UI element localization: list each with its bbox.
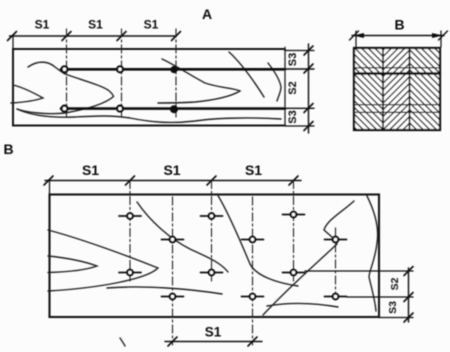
bolt B r4c2 xyxy=(242,294,264,300)
row line 1 extension xyxy=(285,68,314,70)
dimension line S2/S3 vertical right xyxy=(408,268,410,322)
bolt row line 1 xyxy=(61,68,285,71)
bolt B r1c2 xyxy=(201,213,223,219)
tick xyxy=(289,176,298,185)
tick xyxy=(304,64,313,73)
extension bottom edge right xyxy=(379,317,413,319)
grain B big left flame xyxy=(48,230,158,291)
extension row3 right xyxy=(305,270,413,272)
extension left xyxy=(355,31,357,47)
tick xyxy=(172,32,181,41)
tick left xyxy=(350,31,359,40)
grain A small left flame xyxy=(11,85,43,103)
row line 2 extension xyxy=(285,107,314,109)
tick xyxy=(126,176,135,185)
tick right xyxy=(439,31,448,40)
dimension line S3/S2/S3 vertical xyxy=(308,44,310,133)
section outline xyxy=(354,48,440,130)
bolt B r2c3 xyxy=(325,237,347,243)
bolt row line 2 xyxy=(61,107,285,110)
extension right xyxy=(440,31,442,47)
tick xyxy=(404,267,413,276)
grain B top steep curve left xyxy=(137,202,228,272)
chain line column 1 xyxy=(66,29,68,120)
tick xyxy=(207,176,216,185)
arrow left xyxy=(353,33,364,38)
hatched strip middle (slash) xyxy=(383,48,410,130)
dimension line S1 top (view B) xyxy=(45,180,301,182)
bolt A row2 col1 xyxy=(62,106,68,112)
grain A right diagonal 2 xyxy=(268,63,281,101)
tick xyxy=(304,104,313,113)
tick xyxy=(117,32,126,41)
tick xyxy=(304,46,313,55)
extension line top edge right xyxy=(285,50,314,52)
svg-text:A: A xyxy=(202,6,212,22)
bolt B r4c3 xyxy=(325,294,347,300)
dimension line S1 top (view A) xyxy=(10,35,177,37)
tick xyxy=(168,337,177,346)
chain line column 2 xyxy=(121,29,123,120)
svg-text:S1: S1 xyxy=(245,162,262,178)
svg-text:S3: S3 xyxy=(287,110,299,123)
bolt B r3c2 xyxy=(201,270,223,276)
right edge chain overlay xyxy=(284,47,286,127)
stray mark bottom left xyxy=(120,338,125,346)
dimension line B width xyxy=(352,35,444,37)
tick xyxy=(248,337,257,346)
plank A right edge (cut line) xyxy=(284,49,286,126)
bolt B r1c3 xyxy=(283,212,305,218)
bolt A row1 col3 (filled) xyxy=(170,66,177,73)
svg-text:B: B xyxy=(3,141,13,157)
tick xyxy=(62,32,71,41)
tick xyxy=(8,32,17,41)
svg-text:B: B xyxy=(394,17,404,33)
chain line column 3 xyxy=(175,29,177,120)
grain B inner lens xyxy=(48,256,97,273)
extension row4 right xyxy=(347,296,413,298)
grain B right tall S xyxy=(367,196,378,311)
divider 1 xyxy=(382,48,384,130)
arrow right xyxy=(432,33,443,38)
dimension line S1 bottom xyxy=(165,341,262,343)
grain B bottom right wave xyxy=(267,303,338,307)
chain line col A2 xyxy=(211,181,213,282)
plank B outline xyxy=(50,195,380,318)
bolt A row1 col1 xyxy=(62,66,68,72)
plank A outline xyxy=(13,49,285,126)
grain A right diagonal 1 xyxy=(229,52,264,97)
chain line col B2 xyxy=(252,197,254,345)
svg-text:S1: S1 xyxy=(144,18,159,32)
chain line col B1 xyxy=(172,197,174,345)
bolt B r1c1 xyxy=(119,213,141,219)
svg-text:S1: S1 xyxy=(82,162,99,178)
horizontal joint thin 3 xyxy=(354,111,440,113)
bolt A row1 col2 xyxy=(117,66,123,72)
grain A bottom long wave xyxy=(17,109,281,122)
grain A big chevron 1 xyxy=(17,62,114,114)
grain A big chevron 2 xyxy=(158,59,240,103)
hatched strip right (backslash) xyxy=(410,48,441,130)
svg-text:S2: S2 xyxy=(287,81,299,94)
bolt A row2 col2 xyxy=(117,106,123,112)
svg-text:S3: S3 xyxy=(287,53,299,66)
bolt B r2c1 xyxy=(162,237,184,243)
svg-text:S1: S1 xyxy=(88,18,103,32)
chain line col A1 xyxy=(129,181,131,282)
tick xyxy=(404,293,413,302)
divider 2 xyxy=(409,48,411,130)
extension line bottom edge right xyxy=(285,125,314,127)
bolt B r3c1 xyxy=(119,270,141,276)
bolt A row2 col3 (filled) xyxy=(170,105,178,113)
svg-text:S1: S1 xyxy=(35,18,50,32)
bolt B r2c2 xyxy=(242,237,264,243)
horizontal joint thick xyxy=(354,72,440,74)
svg-text:S1: S1 xyxy=(163,162,180,178)
svg-text:S2: S2 xyxy=(389,277,401,290)
extension left edge up xyxy=(49,181,51,195)
chain line col A3 xyxy=(293,181,295,282)
hatched strip left (backslash) xyxy=(354,48,383,130)
grain B steep curve middle xyxy=(217,194,298,286)
tick xyxy=(44,176,53,185)
bolt B r4c1 xyxy=(162,294,184,300)
horizontal joint thin 2 xyxy=(354,104,440,106)
svg-text:S1: S1 xyxy=(205,325,222,340)
svg-text:S3: S3 xyxy=(387,301,399,314)
tick xyxy=(304,122,313,131)
grain B lightning xyxy=(263,201,354,315)
chain line col B3 xyxy=(335,228,337,303)
tick xyxy=(404,313,413,322)
grain B bottom-left wave xyxy=(107,287,222,294)
horizontal joint thin 1 xyxy=(354,67,440,69)
extension line left edge up xyxy=(12,36,14,49)
bolt B r3c3 xyxy=(283,270,305,276)
